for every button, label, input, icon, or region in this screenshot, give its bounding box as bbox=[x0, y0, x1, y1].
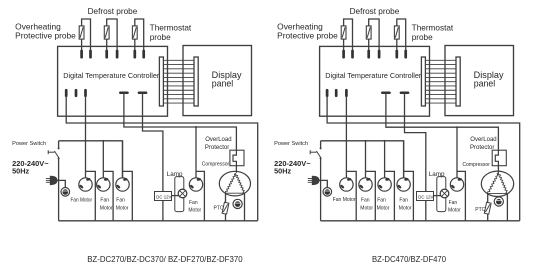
wire feed to fan motor M2a bbox=[102, 141, 104, 178]
lamp fixture housing EL1a bbox=[175, 177, 184, 212]
wire fan motor M4b return loop bbox=[404, 171, 414, 220]
svg-text:Motor: Motor bbox=[377, 205, 390, 211]
ribbon cable connector J2 bbox=[456, 57, 460, 106]
controller bottom power terminals bbox=[65, 90, 68, 96]
overheating RT1b probe symbol bbox=[341, 26, 346, 39]
defrost RT2a probe symbol bbox=[104, 26, 109, 39]
overload protector F1a bbox=[230, 150, 244, 166]
lamp EL1a symbol bbox=[178, 189, 187, 198]
overheating RT1a probe symbol bbox=[79, 26, 84, 39]
wire fan motor M1b return loop bbox=[346, 171, 356, 220]
svg-text:Fan: Fan bbox=[399, 197, 408, 203]
wire relay T2 branch to lamp driver bbox=[143, 93, 163, 192]
compressor motor MCa bbox=[219, 171, 250, 196]
terminal pair for defrost RT2a probe bbox=[105, 51, 108, 57]
wire condenser fan M5a return loop bbox=[196, 171, 204, 220]
wire neutral bottom bus bbox=[59, 220, 258, 222]
digital temperature controller U1b box bbox=[320, 46, 430, 116]
PTC starter R1b bbox=[484, 202, 491, 214]
wire compressor run lead via PTC to bus bbox=[225, 193, 227, 202]
wire evaporator fan supply bus bbox=[59, 141, 123, 178]
svg-text:panel: panel bbox=[212, 78, 234, 88]
compressor winding zigzag bbox=[488, 173, 499, 194]
wire switch to plug junction to neutral bus bbox=[58, 158, 60, 221]
controller bottom power terminals bbox=[326, 90, 329, 96]
wire feed to fan motor M4b bbox=[403, 141, 405, 178]
terminal pair for overheating RT1a probe bbox=[80, 51, 83, 57]
fan motor M2b bbox=[359, 178, 372, 191]
controller relay output terminal T2 bbox=[139, 92, 146, 95]
svg-text:panel: panel bbox=[474, 78, 496, 88]
svg-text:Protector: Protector bbox=[470, 145, 494, 151]
wire neutral bottom bus bbox=[321, 220, 520, 222]
wire feed to fan motor M3a bbox=[122, 141, 124, 178]
wire overheating RT1b probe leads bbox=[344, 19, 353, 50]
power switch S1b bbox=[320, 141, 322, 148]
svg-text:Digital Temperature Controller: Digital Temperature Controller bbox=[63, 71, 159, 80]
wire protector to compressor bbox=[497, 166, 499, 173]
fan motor M3b bbox=[378, 178, 391, 191]
fan motor M3a bbox=[116, 178, 129, 191]
node fan bus junction 3 bbox=[384, 140, 386, 142]
svg-text:Digital Temperature Controller: Digital Temperature Controller bbox=[325, 71, 421, 80]
svg-text:probe: probe bbox=[412, 33, 433, 42]
protective earth terminal E1a bbox=[61, 188, 70, 197]
wire lamp branch below DC12V driver to bus bbox=[425, 201, 427, 221]
wire thermostat RT3b probe leads bbox=[397, 19, 406, 50]
terminal pair for defrost RT2b probe bbox=[367, 51, 370, 57]
svg-text:OverLoad: OverLoad bbox=[205, 137, 231, 143]
wire thermostat RT3a probe leads bbox=[135, 19, 144, 50]
terminal pair for thermostat RT3a probe bbox=[133, 51, 136, 57]
wire lamp branch below DC12V driver to bus bbox=[162, 201, 164, 221]
wire from terminal N down and across to compressor branch bbox=[66, 96, 258, 221]
svg-text:Fan: Fan bbox=[361, 197, 370, 203]
wire relay T2 branch to lamp driver bbox=[405, 93, 426, 192]
wire defrost RT2a probe leads bbox=[107, 19, 117, 50]
wire condenser fan M5b return loop bbox=[457, 171, 465, 220]
wire driver to lamp bbox=[434, 195, 441, 197]
svg-text:OverLoad: OverLoad bbox=[470, 137, 496, 143]
wire driver to lamp bbox=[172, 195, 179, 197]
controller relay output terminal T1 bbox=[120, 92, 127, 95]
wire evaporator fan supply bus bbox=[321, 141, 404, 178]
wire feed to fan motor M1b bbox=[345, 141, 347, 178]
wire fan motor M3b return loop bbox=[385, 171, 395, 220]
thermostat RT3a probe symbol bbox=[132, 26, 137, 39]
svg-text:Fan Motor: Fan Motor bbox=[71, 198, 93, 204]
compressor motor MCb bbox=[481, 171, 513, 196]
display panel box U2a bbox=[183, 46, 252, 116]
svg-text:Thermostat: Thermostat bbox=[412, 23, 454, 32]
wire controller terminal to fan bus bbox=[85, 96, 87, 141]
wire protector to compressor bbox=[235, 166, 237, 173]
lamp fixture housing EL1b bbox=[437, 177, 446, 212]
svg-text:DC 12V: DC 12V bbox=[418, 194, 433, 199]
node fan bus junction 2 bbox=[102, 140, 104, 142]
wire controller terminal to fan bus bbox=[345, 96, 347, 141]
svg-text:Compressor: Compressor bbox=[202, 162, 230, 168]
DC 12V driver A1b bbox=[417, 192, 434, 201]
svg-text:Overheating: Overheating bbox=[15, 22, 61, 31]
svg-text:Power Switch: Power Switch bbox=[274, 141, 308, 147]
compressor earth terminal E2b bbox=[494, 197, 503, 206]
ribbon cable connector J2 bbox=[194, 57, 198, 106]
wire feed to condenser fan M5a bbox=[195, 127, 197, 178]
svg-text:50Hz: 50Hz bbox=[274, 167, 291, 176]
wire defrost RT2b probe leads bbox=[369, 19, 379, 50]
svg-text:Motor: Motor bbox=[188, 207, 201, 213]
svg-text:Motor: Motor bbox=[448, 207, 461, 213]
DC 12V driver A1a bbox=[155, 192, 172, 201]
node on relay rail at condenser fan branch bbox=[456, 126, 458, 128]
svg-text:Protective probe: Protective probe bbox=[277, 32, 338, 41]
svg-text:Fan: Fan bbox=[449, 200, 458, 206]
wire feed to fan motor M1a bbox=[85, 141, 87, 178]
wire feed to fan motor M2b bbox=[365, 141, 367, 178]
ribbon cable wires bbox=[163, 59, 194, 61]
svg-text:Fan: Fan bbox=[377, 197, 386, 203]
svg-text:Overheating: Overheating bbox=[277, 22, 323, 31]
defrost RT2b probe symbol bbox=[366, 26, 371, 39]
svg-text:BZ-DC470/BZ-DF470: BZ-DC470/BZ-DF470 bbox=[372, 255, 447, 264]
wire feed to fan motor M3b bbox=[384, 141, 386, 178]
svg-text:Motor: Motor bbox=[100, 205, 113, 211]
svg-text:Defrost probe: Defrost probe bbox=[88, 7, 138, 16]
svg-text:Fan: Fan bbox=[100, 197, 109, 203]
svg-text:Power Switch: Power Switch bbox=[12, 141, 46, 147]
condenser fan motor M5a bbox=[189, 178, 202, 191]
wire fan motor M2a return loop bbox=[103, 171, 113, 220]
controller relay output terminal T2 bbox=[401, 92, 408, 95]
svg-text:50Hz: 50Hz bbox=[12, 167, 29, 176]
PTC starter R1a bbox=[222, 202, 229, 214]
mains plug P1b bbox=[308, 178, 313, 180]
condenser fan motor M5b bbox=[450, 178, 463, 191]
wire compressor start lead to bus bbox=[506, 194, 508, 221]
svg-text:Compressor: Compressor bbox=[463, 162, 491, 168]
power switch S1a bbox=[58, 141, 60, 148]
fan motor M1a bbox=[79, 178, 92, 191]
digital temperature controller U1a box bbox=[58, 46, 168, 116]
wire relay T1 rail to condenser fan and compressor bbox=[386, 93, 499, 150]
wire compressor start lead to bus bbox=[244, 193, 246, 221]
wire relay T1 rail to condenser fan and compressor bbox=[124, 93, 236, 150]
lamp EL1b symbol bbox=[440, 189, 449, 198]
svg-text:DC 12V: DC 12V bbox=[156, 194, 171, 199]
svg-text:PTC: PTC bbox=[475, 207, 485, 213]
compressor earth terminal E2a bbox=[233, 199, 242, 208]
node fan bus junction 2 bbox=[365, 140, 367, 142]
terminal pair for overheating RT1b probe bbox=[342, 51, 345, 57]
svg-text:Motor: Motor bbox=[116, 205, 129, 211]
svg-text:Motor: Motor bbox=[360, 205, 373, 211]
wire overheating RT1a probe leads bbox=[82, 19, 91, 50]
svg-text:BZ-DC270/BZ-DC370/ BZ-DF270/BZ: BZ-DC270/BZ-DC370/ BZ-DF270/BZ-DF370 bbox=[87, 255, 243, 264]
node on relay rail at condenser fan branch bbox=[195, 126, 197, 128]
svg-text:Fan: Fan bbox=[189, 200, 198, 206]
controller relay output terminal T1 bbox=[382, 92, 389, 95]
terminal pair for thermostat RT3b probe bbox=[395, 51, 398, 57]
svg-text:Protective probe: Protective probe bbox=[15, 32, 76, 41]
fan motor M2a bbox=[97, 178, 110, 191]
svg-text:Protector: Protector bbox=[205, 145, 229, 151]
ribbon cable connector J1 bbox=[421, 57, 425, 106]
wire fan motor M2b return loop bbox=[366, 171, 376, 220]
svg-text:Defrost probe: Defrost probe bbox=[350, 7, 400, 16]
node fan bus junction 1 bbox=[85, 140, 87, 142]
wire feed to condenser fan M5b bbox=[456, 127, 458, 178]
mains plug P1a bbox=[46, 178, 51, 180]
svg-text:Fan Motor: Fan Motor bbox=[333, 197, 356, 203]
display panel box U2b bbox=[445, 46, 514, 116]
thermostat RT3b probe symbol bbox=[394, 26, 399, 39]
svg-text:probe: probe bbox=[150, 33, 171, 42]
overload protector F1b bbox=[492, 150, 506, 166]
node fan bus junction 1 bbox=[345, 140, 347, 142]
svg-text:Thermostat: Thermostat bbox=[150, 23, 192, 32]
ribbon cable connector J1 bbox=[159, 57, 163, 106]
wire switch to plug junction to neutral bus bbox=[320, 158, 322, 221]
protective earth terminal E1b bbox=[323, 188, 332, 197]
wire plug cord to earth bbox=[57, 180, 65, 187]
svg-text:Motor: Motor bbox=[399, 205, 412, 211]
fan motor M1b bbox=[340, 178, 353, 191]
wire fan motor M3a return loop bbox=[123, 171, 133, 220]
wire compressor run lead via PTC to bus bbox=[487, 194, 489, 203]
wire plug cord to earth bbox=[319, 180, 327, 187]
compressor winding zigzag bbox=[225, 173, 235, 193]
svg-text:Fan: Fan bbox=[116, 197, 125, 203]
svg-text:PTC: PTC bbox=[214, 206, 224, 212]
wire from terminal N down and across to compressor branch bbox=[327, 96, 520, 221]
fan motor M4b bbox=[397, 178, 410, 191]
wire fan motor M1a return loop bbox=[86, 171, 96, 220]
ribbon cable wires bbox=[425, 59, 456, 61]
